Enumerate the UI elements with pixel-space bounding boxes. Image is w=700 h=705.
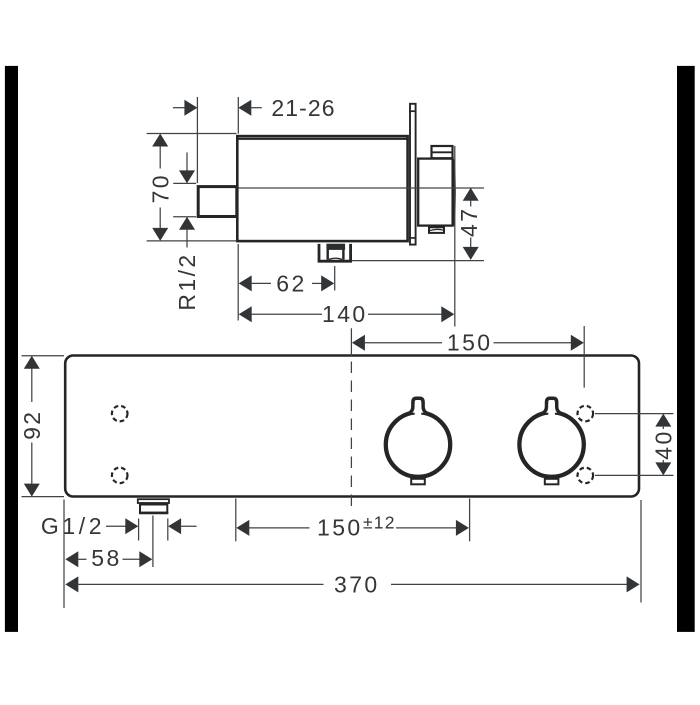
svg-text:62: 62 xyxy=(276,270,306,296)
svg-text:70: 70 xyxy=(148,173,174,203)
svg-text:140: 140 xyxy=(322,301,368,327)
right knob bottom tab xyxy=(545,479,559,485)
dim 40 xyxy=(595,414,676,476)
G1/2 connector nub xyxy=(138,499,169,513)
hose outlet nut xyxy=(319,244,351,262)
dim 47 xyxy=(352,188,484,261)
svg-text:150: 150 xyxy=(317,515,363,541)
svg-text:G1/2: G1/2 xyxy=(41,513,105,539)
dashed service circle top-left xyxy=(112,406,128,422)
dim 370 xyxy=(65,500,641,603)
wall plate xyxy=(409,104,416,245)
svg-text:±12: ±12 xyxy=(363,513,396,533)
dim 21-26 xyxy=(173,95,336,183)
right knob xyxy=(519,398,583,477)
dim 70 xyxy=(147,134,237,241)
svg-text:40: 40 xyxy=(650,429,676,459)
G1/2 label with arrow xyxy=(41,513,197,540)
dim pipe (unlabeled small dimension) xyxy=(173,153,196,248)
escutcheon bottom tab xyxy=(429,227,444,233)
dim 92 xyxy=(19,356,64,497)
dashed service circle bottom-left xyxy=(112,468,128,484)
left knob bottom tab xyxy=(411,479,425,485)
left crop bar xyxy=(5,66,18,632)
right crop bar xyxy=(677,66,695,632)
escutcheon top tab xyxy=(431,146,454,158)
dim 58 xyxy=(64,500,153,609)
inlet pipe (side view) xyxy=(198,187,237,217)
svg-text:R1/2: R1/2 xyxy=(174,252,200,310)
dim 150±12 xyxy=(236,499,470,542)
dim 150 (top) xyxy=(352,326,584,388)
left knob xyxy=(386,398,450,477)
svg-text:47: 47 xyxy=(456,207,482,237)
svg-text:370: 370 xyxy=(334,571,380,597)
svg-text:150: 150 xyxy=(447,330,493,356)
dim 140 xyxy=(239,146,455,327)
svg-text:21-26: 21-26 xyxy=(271,95,335,121)
front body xyxy=(65,356,639,497)
R1/2 label xyxy=(174,252,200,310)
svg-text:92: 92 xyxy=(19,410,45,440)
centerline (solid extension + dashed through body) xyxy=(350,328,352,509)
dashed service circle top-right xyxy=(578,406,594,422)
dim 62 xyxy=(238,244,335,321)
dashed service circle bottom-right xyxy=(578,468,594,484)
escutcheon main xyxy=(418,159,454,226)
body parting centerline xyxy=(239,187,484,189)
svg-text:58: 58 xyxy=(91,545,121,571)
mixer body (side view) xyxy=(236,136,409,241)
